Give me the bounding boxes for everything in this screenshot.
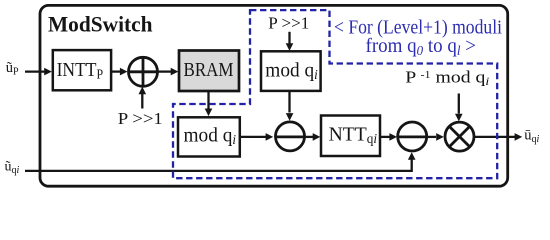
subtractor2 circle minus bbox=[397, 122, 428, 151]
wire P^-1 mod qi down to multiplier bbox=[455, 94, 463, 122]
box INTTP bbox=[53, 50, 111, 90]
wire P>>1 up to adder bbox=[139, 87, 147, 109]
svg-text:ModSwitch: ModSwitch bbox=[48, 12, 153, 37]
wire subtractor1 to NTT bbox=[305, 133, 321, 141]
wire u~qi bottom bus to subtractor2 bbox=[25, 152, 416, 171]
box mod qi lower bbox=[178, 117, 240, 156]
svg-text:INTTP: INTTP bbox=[57, 59, 104, 82]
wire INTTP to adder bbox=[112, 68, 128, 76]
wire subtractor2 to multiplier bbox=[427, 133, 444, 141]
wire multiplier to output bbox=[474, 133, 522, 141]
wire BRAM down to mod qi bbox=[205, 91, 213, 116]
wire adder to BRAM bbox=[158, 68, 179, 76]
box BRAM bbox=[179, 51, 239, 92]
box mod qi upper bbox=[261, 51, 321, 91]
wire top P>>1 down to mod qi bbox=[286, 32, 294, 51]
wire input uP to INTTP bbox=[25, 68, 52, 76]
wire mod qi to subtractor1 bbox=[240, 133, 273, 141]
svg-text:P >>1: P >>1 bbox=[118, 109, 163, 128]
box NTTqi bbox=[321, 116, 380, 157]
enclosure ModSwitch outer box bbox=[40, 5, 508, 186]
svg-text:mod qi: mod qi bbox=[184, 125, 237, 148]
subtractor1 circle minus bbox=[274, 122, 305, 151]
svg-text:P -1 mod qi: P -1 mod qi bbox=[405, 67, 489, 88]
wire upper mod qi down to subtractor1 bbox=[286, 92, 294, 121]
svg-text:P >>1: P >>1 bbox=[268, 13, 309, 32]
adder circle plus bbox=[129, 57, 158, 86]
svg-text:< For (Level+1) moduli: < For (Level+1) moduli bbox=[334, 16, 502, 38]
svg-text:mod qi: mod qi bbox=[265, 59, 318, 82]
for-loop dashed boundary bbox=[173, 10, 497, 178]
svg-text:BRAM: BRAM bbox=[184, 59, 234, 81]
wire NTT to subtractor2 bbox=[380, 133, 397, 141]
multiplier circle times bbox=[445, 122, 474, 151]
